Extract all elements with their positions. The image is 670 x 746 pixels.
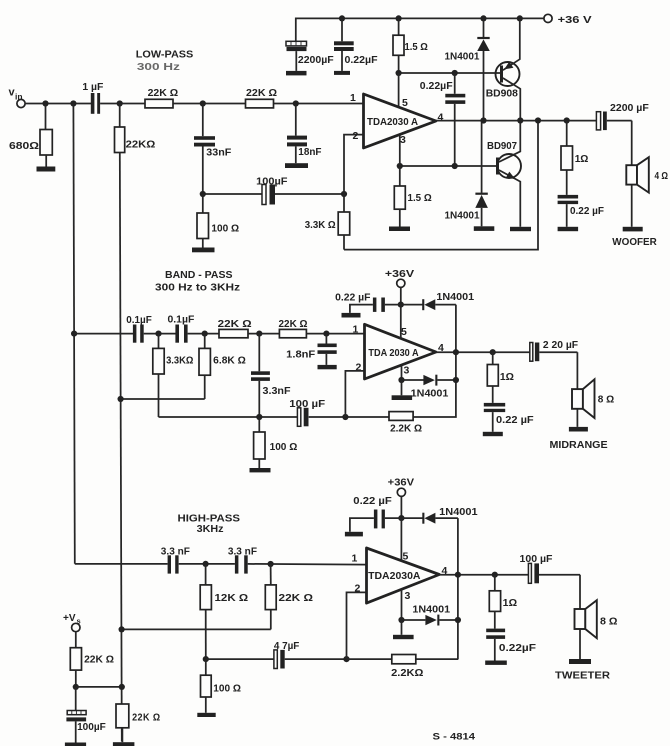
node BP output zobel	[490, 349, 496, 355]
svg-text:1Ω: 1Ω	[575, 153, 589, 165]
ground 100ohm LP	[192, 248, 215, 253]
capacitor 3.3nF HP first	[161, 547, 190, 574]
node rail Q1 emitter	[517, 15, 523, 21]
svg-text:18nF: 18nF	[298, 146, 322, 158]
node 33nF top	[200, 100, 206, 106]
ground 0.22uF decoupling	[334, 71, 350, 75]
op-amp U1 TDA2030A woofer	[364, 94, 437, 148]
svg-text:6.8K Ω: 6.8K Ω	[213, 356, 246, 367]
capacitor 100uF LP feedback	[203, 175, 344, 204]
capacitor 0.22uF woofer zobel	[558, 195, 605, 227]
resistor 3.3Kohm LP feedback	[305, 194, 350, 250]
svg-text:100µF: 100µF	[256, 175, 288, 187]
wire pin2 route U2	[345, 371, 364, 417]
node bootstrap cap bottom	[452, 163, 458, 169]
svg-text:22K Ω: 22K Ω	[218, 319, 252, 330]
node output zobel	[564, 117, 570, 123]
wire BP feedback bus right	[309, 305, 456, 417]
resistor 6.8Kohm BP shunt	[199, 334, 246, 399]
svg-text:2 20 µF: 2 20 µF	[543, 340, 578, 351]
capacitor 0.22uF supply decoupling	[334, 18, 378, 71]
speaker midrange 8ohm	[572, 352, 614, 427]
svg-text:2.2KΩ: 2.2KΩ	[391, 668, 423, 679]
svg-text:4 7µF: 4 7µF	[274, 641, 299, 652]
diode 1N4001 HP upper clamp	[401, 507, 478, 524]
ground pin3 HP	[393, 620, 414, 639]
capacitor 3.3nF HP second	[228, 547, 257, 574]
ground 22Kohm bias lower	[113, 742, 134, 746]
node HP 100ohm top	[203, 656, 209, 662]
capacitor 0.22uF HP supply	[350, 496, 402, 532]
ground HP zobel	[485, 661, 507, 665]
terminal +36V BP	[385, 269, 415, 287]
svg-text:HIGH-PASS: HIGH-PASS	[178, 514, 241, 525]
ground 1.5ohm lower	[389, 227, 410, 232]
transistor Q2 BD907 NPN booster	[487, 120, 521, 226]
svg-text:3: 3	[405, 590, 411, 602]
svg-text:3.3K Ω: 3.3K Ω	[305, 220, 336, 231]
capacitor 1uF input coupling	[82, 81, 104, 114]
wire BP input bus seg5	[306, 333, 364, 335]
wire pin2 route U1	[344, 135, 364, 194]
resistor 100ohm LP	[197, 194, 239, 248]
capacitor 2200uF output electrolytic	[596, 102, 649, 130]
svg-text:3.3nF: 3.3nF	[263, 386, 291, 397]
svg-text:+36 V: +36 V	[558, 14, 592, 26]
svg-text:1N4001: 1N4001	[445, 210, 480, 222]
node BP pin2 net	[342, 414, 348, 420]
capacitor 0.22uF BP zobel	[484, 403, 534, 432]
svg-text:22K Ω: 22K Ω	[279, 319, 308, 330]
node BP 3.3K top	[155, 331, 161, 337]
node HP output zobel	[492, 572, 498, 578]
svg-text:22K Ω: 22K Ω	[148, 88, 179, 99]
op-amp U2 TDA2030A midrange	[365, 324, 437, 379]
node pin3 BP	[398, 377, 404, 383]
wire +36V to supply node BP	[400, 287, 402, 304]
capacitor 0.1uF BP first	[126, 315, 152, 343]
resistor 1ohm BP zobel	[487, 352, 514, 403]
svg-text:33nF: 33nF	[206, 147, 232, 159]
diode 1N4001 BP lower clamp	[402, 375, 456, 400]
wire pin5 U1	[398, 73, 400, 108]
svg-text:2.2K Ω: 2.2K Ω	[390, 423, 422, 434]
node input-column	[70, 100, 76, 106]
diode 1N4001 BP upper clamp	[401, 292, 475, 310]
svg-text:0.22µF: 0.22µF	[420, 80, 453, 92]
resistor 22Kohm series LP 1	[145, 88, 178, 108]
wire LP feedback from output	[344, 120, 538, 249]
svg-text:s: s	[77, 617, 81, 626]
resistor 22Kohm series LP 2	[246, 88, 278, 108]
svg-text:300 Hz: 300 Hz	[137, 62, 180, 73]
resistor 22Kohm HP	[265, 564, 313, 629]
svg-text:1: 1	[350, 92, 356, 104]
node BP 1.8nF top	[323, 331, 329, 337]
svg-text:4: 4	[438, 111, 444, 123]
svg-text:3.3KΩ: 3.3KΩ	[166, 356, 193, 367]
node 100uF right pin2 net	[341, 191, 347, 197]
svg-text:1N4001: 1N4001	[412, 605, 450, 616]
svg-text:3: 3	[404, 364, 410, 376]
svg-text:WOOFER: WOOFER	[612, 237, 657, 248]
wire output U3	[439, 574, 528, 576]
wire output U2	[436, 351, 530, 353]
speaker tweeter 8ohm	[575, 575, 618, 659]
wire HP bias tap	[122, 628, 271, 630]
node HP bias on column	[119, 626, 125, 632]
svg-text:1N4001: 1N4001	[411, 388, 449, 399]
capacitor 0.22uF bootstrap	[420, 73, 466, 166]
wire pin3 U2	[401, 365, 403, 380]
capacitor 1.8nF BP	[286, 334, 337, 365]
capacitor 100uF bias electrolytic	[66, 687, 106, 743]
svg-text:1Ω: 1Ω	[500, 372, 514, 383]
svg-text:680Ω: 680Ω	[9, 140, 39, 152]
node HP pin2 net	[343, 656, 349, 662]
svg-text:2200 µF: 2200 µF	[610, 102, 649, 114]
svg-text:+V: +V	[63, 613, 76, 624]
wire input bus top	[25, 103, 91, 105]
capacitor 18nF	[287, 104, 322, 164]
svg-text:22K Ω: 22K Ω	[279, 593, 314, 604]
diode 1N4001 upper clamp D1	[445, 18, 490, 120]
resistor R 680ohm input termination	[9, 104, 52, 167]
node HP diode2 column	[455, 617, 461, 623]
wire BP input bus seg3	[188, 333, 219, 335]
ground tweeter	[569, 659, 591, 664]
wire LP mid	[173, 103, 246, 105]
svg-text:+36V: +36V	[385, 269, 415, 280]
wire pin2 route U3	[347, 592, 367, 659]
wire +36V to supply node HP	[400, 496, 402, 518]
svg-text:1: 1	[353, 324, 359, 336]
wire BP input bus seg1	[74, 333, 133, 335]
svg-text:BAND - PASS: BAND - PASS	[165, 270, 233, 281]
svg-text:5: 5	[401, 326, 407, 338]
svg-text:0.22 µF: 0.22 µF	[335, 293, 370, 304]
svg-text:100 µF: 100 µF	[520, 554, 553, 565]
terminal +36V	[544, 14, 592, 26]
wire HP right column	[457, 518, 459, 659]
svg-text:100 Ω: 100 Ω	[270, 442, 298, 453]
speaker woofer 4ohm	[626, 121, 668, 227]
wire input column	[73, 104, 74, 564]
terminal +36V HP	[388, 477, 415, 496]
resistor 22Kohm BP series 2	[279, 319, 308, 338]
svg-text:S - 4814: S - 4814	[433, 732, 476, 742]
svg-text:100 Ω: 100 Ω	[213, 684, 241, 695]
ground woofer zobel	[558, 227, 579, 231]
svg-text:1 µF: 1 µF	[82, 81, 104, 93]
wire HP input bus seg3	[248, 563, 367, 566]
ground pin3 BP	[392, 380, 413, 400]
svg-text:BD908: BD908	[486, 87, 518, 99]
svg-text:3KHz: 3KHz	[197, 524, 224, 535]
resistor 22Kohm BP series 1	[218, 319, 252, 338]
svg-text:100 µF: 100 µF	[289, 399, 325, 410]
svg-text:12K Ω: 12K Ω	[215, 593, 249, 604]
transistor Q1 BD908 PNP booster	[486, 18, 521, 120]
svg-text:5: 5	[402, 97, 408, 109]
wire BP feedback bus left	[159, 416, 298, 418]
svg-text:22K Ω: 22K Ω	[84, 654, 114, 666]
resistor 2.2Kohm BP feedback	[389, 412, 422, 435]
capacitor 47uF HP feedback electrolytic	[206, 641, 347, 669]
svg-text:TDA2030 A: TDA2030 A	[367, 116, 418, 128]
capacitor 220uF BP output electrolytic	[530, 340, 578, 361]
capacitor 100uF HP output electrolytic	[520, 554, 581, 583]
node BP bias on column	[118, 396, 124, 402]
svg-text:300 Hz to 3KHz: 300 Hz to 3KHz	[155, 283, 240, 294]
svg-text:8 Ω: 8 Ω	[598, 393, 614, 405]
resistor 1.5ohm lower booster	[394, 166, 431, 227]
node output D-column	[480, 117, 486, 123]
svg-text:TDA 2030 A: TDA 2030 A	[368, 347, 419, 359]
svg-text:0.1µF: 0.1µF	[126, 315, 152, 326]
svg-text:MIDRANGE: MIDRANGE	[550, 440, 608, 451]
resistor 22Kohm bias lower	[116, 704, 161, 742]
node output feedback	[535, 117, 541, 123]
capacitor 0.22uF BP supply	[335, 293, 401, 313]
ground 0.22uF HP supply	[345, 532, 363, 537]
svg-text:2200µF: 2200µF	[298, 54, 334, 66]
node BP diode2 column	[453, 377, 459, 383]
node output Q-column	[517, 117, 523, 123]
wire Q1 base net	[399, 72, 501, 74]
diode 1N4001 lower clamp D2	[445, 120, 488, 226]
svg-text:1N4001: 1N4001	[436, 292, 474, 303]
resistor 100ohm BP	[254, 417, 298, 468]
svg-text:0.22µF: 0.22µF	[499, 643, 536, 654]
ground 100ohm BP	[250, 468, 271, 472]
svg-text:BD907: BD907	[487, 140, 517, 152]
wire HP input bus seg1	[75, 563, 168, 565]
svg-text:100 Ω: 100 Ω	[211, 224, 239, 235]
node bias divider	[73, 684, 79, 690]
svg-text:TWEETER: TWEETER	[555, 671, 611, 682]
ground Q2 emitter	[510, 227, 531, 231]
wire LP to pin1 U1	[274, 103, 364, 105]
svg-text:5: 5	[403, 550, 409, 562]
capacitor 3.3nF BP	[251, 334, 291, 417]
ground BP zobel	[483, 432, 503, 436]
node bootstrap cap top	[452, 70, 458, 76]
svg-text:2: 2	[355, 582, 361, 594]
capacitor 0.1uF BP second	[168, 315, 195, 343]
node HP 12K top	[203, 561, 209, 567]
node input-680	[42, 100, 48, 106]
svg-text:0.22 µF: 0.22 µF	[496, 415, 534, 426]
resistor 100ohm HP	[201, 659, 242, 713]
svg-text:3.3 nF: 3.3 nF	[161, 547, 190, 558]
ground 0.22uF BP supply	[342, 313, 361, 318]
supply rail +36V top	[296, 18, 544, 41]
svg-text:1Ω: 1Ω	[503, 598, 517, 609]
title LOW-PASS 300 Hz	[136, 50, 194, 74]
diode 1N4001 HP lower clamp	[402, 605, 458, 626]
svg-text:100µF: 100µF	[77, 721, 106, 733]
title BAND-PASS 300Hz to 3KHz	[155, 270, 240, 294]
resistor 2.2Kohm HP feedback	[347, 655, 459, 680]
ground woofer	[623, 227, 643, 232]
ground 100uF bias	[65, 743, 86, 746]
resistor 1ohm HP zobel	[489, 575, 517, 629]
svg-text:1.5 Ω: 1.5 Ω	[405, 41, 428, 53]
ground 1.8nF	[318, 365, 337, 369]
resistor 22Kohm shunt LP	[115, 104, 156, 153]
node 22K-vert top	[117, 100, 123, 106]
svg-text:3: 3	[400, 134, 406, 146]
svg-text:4 Ω: 4 Ω	[655, 170, 669, 182]
wire BP input bus seg2	[144, 333, 176, 335]
node BP output column	[453, 349, 459, 355]
node BP input tap	[71, 331, 77, 337]
node BP 6.8K top	[202, 331, 208, 337]
node bias column lower	[119, 684, 125, 690]
node supply HP	[398, 515, 404, 521]
node pin3 HP	[398, 617, 404, 623]
node BP 3.3nF top	[256, 331, 262, 337]
ground 100ohm HP	[197, 713, 215, 717]
wire pin5 U2	[400, 305, 402, 339]
svg-text:1N4001: 1N4001	[445, 51, 480, 63]
node HP 22K top	[268, 561, 274, 567]
node 1.5ohm/pin5 junction	[396, 70, 402, 76]
svg-text:8 Ω: 8 Ω	[600, 616, 618, 628]
svg-text:2: 2	[353, 130, 359, 142]
title HIGH-PASS 3KHz	[178, 514, 241, 536]
node 100uF left	[200, 191, 206, 197]
resistor 22Kohm bias upper	[70, 632, 114, 687]
svg-text:0.22 µF: 0.22 µF	[353, 496, 392, 507]
svg-text:0.22 µF: 0.22 µF	[570, 205, 605, 217]
wire 1uF to shunt	[100, 103, 145, 105]
svg-text:1: 1	[352, 553, 358, 565]
ground midrange	[569, 427, 588, 432]
svg-text:2: 2	[356, 361, 362, 373]
wire pin3 U3	[401, 589, 403, 620]
node supply BP	[398, 302, 404, 308]
wire BP bias tap	[121, 398, 205, 400]
ground D2	[474, 226, 495, 231]
resistor 3.3Kohm BP shunt	[153, 334, 194, 417]
wire pin5 U3	[400, 518, 402, 561]
op-amp U3 TDA2030A tweeter	[367, 548, 440, 603]
svg-text:22K Ω: 22K Ω	[246, 88, 277, 99]
svg-text:0.22µF: 0.22µF	[345, 54, 379, 66]
node pin3 junction	[397, 163, 403, 169]
capacitor 2200uF supply decoupling	[286, 41, 334, 71]
ground 2200uF	[286, 71, 307, 76]
node rail D1	[480, 15, 486, 21]
wire BP input bus seg4	[248, 333, 279, 335]
node BP 100ohm top	[256, 414, 262, 420]
node rail 0.22uF	[339, 15, 345, 21]
wire pin3 U1	[399, 135, 401, 166]
resistor 1.5ohm upper booster	[393, 18, 428, 73]
resistor 12Kohm HP	[200, 564, 248, 659]
ground 18nF	[285, 163, 308, 168]
wire Q2 base net	[400, 165, 496, 167]
svg-text:1.5 Ω: 1.5 Ω	[408, 192, 432, 204]
node 18nF top	[293, 100, 299, 106]
terminal +Vs	[63, 613, 81, 632]
capacitor 100uF BP feedback electrolytic	[289, 399, 325, 426]
input terminal Vin	[9, 87, 26, 108]
wire HP input bus seg2	[179, 563, 235, 565]
node rail 1.5ohm	[396, 15, 402, 21]
svg-text:22KΩ: 22KΩ	[126, 138, 156, 150]
svg-text:+36V: +36V	[388, 477, 415, 488]
wire bias column	[120, 153, 122, 742]
svg-text:0.1µF: 0.1µF	[168, 315, 195, 326]
ground 680ohm	[37, 167, 56, 172]
resistor 1ohm woofer zobel	[561, 121, 588, 195]
svg-text:22K Ω: 22K Ω	[132, 711, 160, 723]
capacitor 0.22uF HP zobel	[486, 629, 536, 661]
svg-text:TDA2030A: TDA2030A	[368, 570, 421, 582]
svg-text:1N4001: 1N4001	[439, 507, 478, 518]
svg-text:in: in	[15, 92, 23, 102]
svg-text:3.3 nF: 3.3 nF	[228, 547, 257, 558]
wire bias node to column	[76, 686, 122, 688]
svg-text:LOW-PASS: LOW-PASS	[136, 50, 194, 61]
svg-text:1.8nF: 1.8nF	[286, 349, 315, 360]
wire output U1	[436, 120, 596, 122]
node HP output column	[455, 572, 461, 578]
capacitor 33nF	[194, 104, 232, 195]
